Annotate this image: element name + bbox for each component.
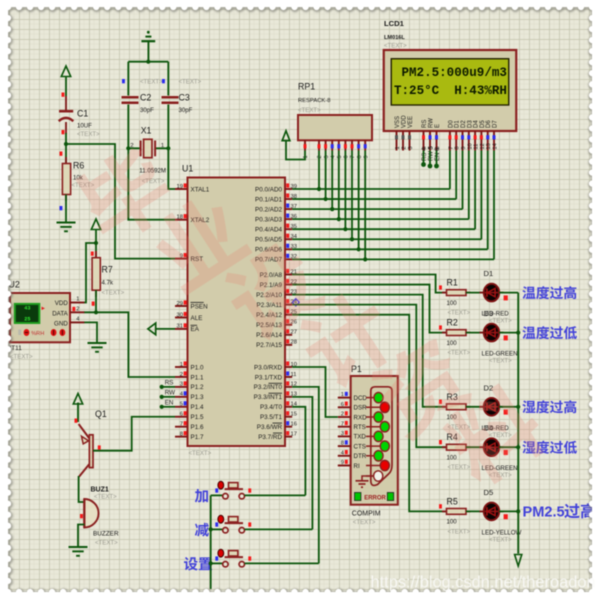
svg-text:14: 14 [493, 143, 499, 149]
svg-text:P0.1/AD1: P0.1/AD1 [255, 196, 282, 203]
svg-text:PM2.5: PM2.5 [523, 505, 565, 521]
svg-text:10: 10 [467, 143, 473, 149]
wire bus to button left contact [211, 528, 223, 530]
node X1 pin1 [166, 146, 170, 150]
svg-text:18: 18 [177, 215, 183, 221]
svg-text:D1: D1 [455, 120, 461, 128]
COMPIM internal ground [362, 476, 373, 481]
svg-text:RW: RW [429, 118, 435, 128]
ground (buzzer) [69, 546, 88, 548]
wire Q1 base to P1.5 [93, 417, 175, 451]
wire button right contact out [245, 494, 306, 496]
svg-text:3: 3 [324, 155, 330, 158]
svg-text:7: 7 [180, 422, 183, 428]
svg-text:<TEXT>: <TEXT> [448, 310, 471, 317]
svg-text:T:25°C H:43%RH: T:25°C H:43%RH [394, 84, 507, 98]
RP1 pin 8 [358, 140, 360, 150]
svg-text:100: 100 [447, 519, 458, 526]
svg-text:12: 12 [480, 143, 486, 149]
wire EA [156, 328, 175, 330]
node bus junction button3 [209, 561, 213, 565]
COMPIM pin 6 DSR [338, 406, 351, 408]
svg-text:7: 7 [341, 421, 344, 427]
svg-text:<TEXT>: <TEXT> [298, 107, 321, 114]
svg-text:X1: X1 [141, 126, 152, 136]
wire to C3 [167, 62, 169, 96]
wire R2 to D3 [466, 332, 484, 334]
svg-text:XTAL1: XTAL1 [191, 186, 210, 193]
resistor R7 4.7k [95, 251, 97, 258]
svg-text:4: 4 [330, 155, 336, 158]
svg-text:<TEXT>: <TEXT> [94, 494, 117, 501]
wire R7 to DATA [95, 290, 97, 312]
wire R3 to D2 [466, 406, 484, 408]
wire D3 to bus [499, 332, 518, 334]
svg-text:LED-YELLOW: LED-YELLOW [482, 529, 522, 536]
svg-text:9: 9 [461, 146, 467, 149]
wire VCC to DHT11 VDD [84, 243, 96, 303]
wire LCD D0 vertical [449, 151, 451, 190]
RP1 pin 7 [351, 140, 353, 150]
power terminal [73, 394, 82, 405]
svg-text:2: 2 [402, 146, 408, 149]
svg-text:2: 2 [341, 412, 344, 418]
svg-text:16: 16 [291, 422, 297, 428]
node P0.3/RP1 junction [337, 217, 341, 221]
resistor R3 100 [439, 400, 442, 404]
wire D1 to bus [499, 292, 518, 294]
ground (crystal top) [147, 31, 150, 34]
node P0.1/RP1 junction [324, 197, 328, 201]
svg-text:EA: EA [191, 326, 200, 333]
wire P0.0 row [292, 188, 450, 190]
svg-text:P1.6: P1.6 [191, 424, 204, 431]
wire DHT11 GND [84, 322, 97, 342]
node P0.6/RP1 junction [357, 247, 361, 251]
svg-text:8: 8 [357, 155, 363, 158]
wire DATA to P1.1 [84, 312, 175, 377]
wire X1 left [128, 147, 140, 149]
svg-text:6: 6 [341, 402, 344, 408]
wire LCD D4 vertical [474, 151, 476, 230]
LED common bus vertical [517, 293, 519, 554]
U1 left pins [175, 188, 188, 190]
P2.4 to R5 [292, 315, 446, 512]
ground (DHT11) [88, 342, 107, 344]
svg-text:P1.2: P1.2 [191, 384, 204, 391]
node P0.4/RP1 junction [343, 227, 347, 231]
LED D4 LED-GREEN [480, 446, 485, 448]
origin marker pin24 [292, 299, 299, 306]
DHT11 pin 4 GND [70, 321, 84, 323]
svg-text:<TEXT>: <TEXT> [95, 540, 118, 547]
wire bus to button left contact [211, 562, 223, 564]
svg-text:RW: RW [165, 389, 175, 396]
LED D1 LED-RED [480, 292, 485, 294]
wire LCD D1 vertical [455, 151, 457, 200]
svg-text:P3.2/INT0: P3.2/INT0 [254, 384, 283, 391]
svg-text:RESPACK-8: RESPACK-8 [298, 98, 330, 104]
COMPIM pin 8 CTS [338, 445, 351, 447]
wire P0.1 row [292, 198, 456, 200]
svg-text:<TEXT>: <TEXT> [353, 519, 376, 526]
wire D5 to bus [499, 510, 518, 512]
svg-text:P1.0: P1.0 [191, 364, 204, 371]
svg-text:DTR: DTR [354, 453, 367, 460]
wire VCC to Q1 collector [77, 403, 79, 423]
svg-text:%RH: %RH [31, 331, 44, 337]
net label 湿度过高 [522, 400, 576, 413]
wire P0.7 row [292, 258, 494, 260]
svg-text:<TEXT>: <TEXT> [189, 450, 212, 457]
node P0.2/RP1 junction [330, 207, 334, 211]
svg-text:PM2.5:000u9/m3: PM2.5:000u9/m3 [402, 66, 507, 80]
svg-text:<TEXT>: <TEXT> [77, 131, 100, 138]
svg-text:30: 30 [177, 312, 183, 318]
resistor R1 100 [439, 285, 442, 289]
wire RP1 pin6 pullup to P0.4 [344, 151, 346, 230]
svg-text:DSR: DSR [354, 405, 368, 412]
svg-text:P1.3: P1.3 [191, 394, 204, 401]
svg-text:9: 9 [363, 155, 369, 158]
svg-text:D6: D6 [486, 120, 492, 128]
P2.3 to R4 [292, 305, 446, 448]
svg-text:P3.7/RD: P3.7/RD [258, 434, 282, 441]
wire R1 to D1 [466, 292, 484, 294]
svg-text:8: 8 [180, 431, 183, 437]
wire LCD D2 vertical [462, 151, 464, 210]
wire bus to button left contact [211, 494, 223, 496]
svg-text:ALE: ALE [191, 315, 203, 322]
svg-text:TXD: TXD [354, 434, 367, 441]
svg-text:C1: C1 [77, 109, 88, 119]
svg-text:R2: R2 [447, 318, 458, 328]
node X1 pin2 [126, 146, 130, 150]
wire RP1 pin8 pullup to P0.6 [358, 151, 360, 250]
svg-text:1: 1 [180, 362, 183, 368]
wire LCD D3 vertical [468, 151, 470, 220]
svg-text:D3: D3 [467, 120, 473, 128]
svg-text:C2: C2 [140, 93, 151, 103]
wire P3.0 to COMPIM RXD [292, 367, 338, 417]
svg-text:5: 5 [180, 402, 183, 408]
U1 right pins P3 [285, 366, 292, 368]
node bus junction D3 [516, 331, 520, 335]
wire button right contact out [245, 528, 313, 530]
svg-text:4.7k: 4.7k [102, 280, 114, 287]
svg-text:P3.1/TXD: P3.1/TXD [255, 374, 283, 381]
svg-text:VDD: VDD [402, 115, 408, 128]
svg-text:17: 17 [291, 431, 297, 437]
U1 right pins P0 [285, 188, 292, 190]
resistor R6 10k [65, 157, 67, 164]
RP1 pin 9 [364, 140, 366, 150]
svg-text:RS: RS [165, 379, 174, 386]
svg-text:U1: U1 [182, 164, 193, 174]
svg-text:P0.2/AD2: P0.2/AD2 [255, 206, 282, 213]
svg-text:P3.3/INT1: P3.3/INT1 [254, 394, 283, 401]
svg-text:▶: ▶ [42, 306, 46, 311]
svg-text:E: E [435, 124, 441, 128]
svg-text:D2: D2 [461, 120, 467, 128]
svg-text:30pF: 30pF [140, 107, 154, 114]
svg-text:P3.4/T0: P3.4/T0 [260, 404, 283, 411]
svg-text:D0: D0 [448, 120, 454, 128]
RP1 pin 4 [331, 140, 333, 150]
resistor R5 100 [439, 504, 442, 508]
svg-text:9: 9 [341, 460, 344, 466]
power terminal (RP1) [282, 131, 290, 141]
svg-text:COMPIM: COMPIM [352, 511, 381, 518]
wire C3/X1 to XTAL1 [168, 105, 175, 190]
svg-text:P0.3/AD3: P0.3/AD3 [255, 216, 282, 223]
svg-text:D1: D1 [484, 269, 494, 278]
capacitor C3 30pF [162, 96, 179, 99]
COMPIM pin 2 RXD [338, 416, 351, 418]
svg-text:<TEXT>: <TEXT> [489, 536, 512, 543]
svg-text:P1.4: P1.4 [191, 404, 204, 411]
svg-text:100: 100 [447, 454, 458, 461]
wire C2/X1 to XTAL2 [128, 105, 175, 220]
wire to C2 [127, 62, 129, 96]
svg-text:27: 27 [291, 330, 297, 336]
svg-text:ERROR: ERROR [364, 495, 386, 501]
svg-text:R6: R6 [73, 161, 84, 171]
svg-text:7: 7 [448, 146, 454, 149]
wire RST net [66, 144, 175, 259]
wire C2-C3 top rail [128, 61, 168, 63]
net label 湿度过低 [522, 441, 577, 454]
svg-text:EN: EN [165, 399, 174, 406]
svg-text:P0.0/AD0: P0.0/AD0 [255, 186, 282, 193]
svg-text:P0.4/AD4: P0.4/AD4 [255, 227, 282, 234]
wire P3.4 to button 加 [292, 407, 305, 496]
svg-text:<TEXT>: <TEXT> [384, 43, 407, 50]
svg-text:RS: RS [422, 120, 428, 128]
resistor R4 100 [439, 440, 442, 444]
node bus junction D2 [516, 405, 520, 409]
ground (R6) [57, 222, 76, 224]
wire gnd stem [147, 41, 149, 62]
svg-text:3: 3 [341, 431, 344, 437]
svg-text:DCD: DCD [354, 395, 368, 402]
P2.1 to R2 [292, 285, 447, 333]
LED D2 LED-RED [480, 406, 485, 408]
svg-text:11: 11 [291, 372, 297, 378]
svg-text:VSS: VSS [395, 116, 401, 128]
svg-text:1: 1 [395, 146, 401, 149]
wire P3.3 to button 减 [292, 397, 312, 530]
svg-text:LM016L: LM016L [384, 35, 405, 41]
svg-text:D3: D3 [484, 309, 494, 318]
net RS [162, 386, 175, 388]
wire P0.4 row [292, 228, 475, 230]
svg-text:VEE: VEE [408, 116, 414, 128]
wire RP1 pin4 pullup to P0.2 [331, 151, 333, 210]
wire VCC to R7 [95, 230, 97, 259]
svg-text:RTS: RTS [354, 424, 366, 431]
P2.2 to R3 [292, 295, 446, 407]
svg-text:C3: C3 [179, 93, 190, 103]
svg-text:11: 11 [474, 144, 480, 150]
svg-text:P2.7/A15: P2.7/A15 [256, 342, 282, 349]
P2.0 to R1 [292, 275, 447, 293]
COMPIM pin 1 DCD [338, 397, 351, 399]
node P0.7/RP1 junction [363, 257, 367, 261]
wire LCD D7 vertical [493, 151, 495, 260]
DHT11 pin 2 DATA [70, 311, 84, 313]
svg-text:P1.5: P1.5 [191, 414, 204, 421]
svg-text:https://blog.csdn.net/theroado: https://blog.csdn.net/theroadon [371, 574, 596, 592]
svg-text:31: 31 [177, 324, 183, 330]
wire RP1 pin3 pullup to P0.1 [325, 151, 327, 200]
wire collector to buzzer [79, 476, 85, 502]
wire RP1 pin9 pullup to P0.7 [364, 151, 366, 260]
resistor R2 100 [439, 325, 442, 329]
wire P0.6 row [292, 248, 488, 250]
node P0.0/RP1 junction [317, 187, 321, 191]
svg-text:1: 1 [341, 392, 344, 398]
svg-text:LCD1: LCD1 [384, 19, 405, 28]
svg-text:2: 2 [180, 372, 183, 378]
svg-text:29: 29 [177, 301, 183, 307]
svg-text:R5: R5 [447, 496, 458, 506]
U1 right pins P2 [285, 274, 292, 276]
wire D4 to bus [499, 446, 518, 448]
node crystal gnd junction [146, 60, 150, 64]
svg-text:LED-GREEN: LED-GREEN [482, 351, 518, 358]
wire R6 to ground [65, 195, 67, 222]
svg-text:<TEXT>: <TEXT> [489, 358, 512, 365]
svg-text:28: 28 [291, 340, 297, 346]
bus down arrow terminal [515, 555, 522, 567]
svg-text:100: 100 [447, 340, 458, 347]
svg-text:VDD: VDD [55, 300, 69, 307]
COMPIM pin 3 TXD [338, 435, 351, 437]
svg-text:P3.6/WR: P3.6/WR [257, 424, 283, 431]
net label 温度过高 [522, 286, 576, 299]
net label 温度过低 [522, 326, 577, 339]
wire LCD E to net EN [436, 151, 438, 167]
svg-text:<TEXT>: <TEXT> [448, 350, 471, 357]
svg-text:GND: GND [54, 320, 68, 327]
svg-text:CTS: CTS [354, 443, 366, 450]
node C1/R6/RST junction [64, 142, 68, 146]
svg-text:19: 19 [177, 184, 183, 190]
RP1 pin 1 [304, 140, 306, 150]
svg-text:<TEXT>: <TEXT> [448, 464, 471, 471]
capacitor C1 [65, 96, 67, 110]
wire C1 to R6 [65, 133, 67, 164]
svg-text:D7: D7 [493, 120, 499, 128]
net RW [162, 396, 175, 398]
svg-text:BUZ1: BUZ1 [91, 487, 109, 494]
svg-text:<TEXT>: <TEXT> [102, 290, 125, 297]
svg-text:P1.1: P1.1 [191, 374, 204, 381]
wire RP1 pin2 pullup to P0.0 [318, 151, 320, 190]
DB9 graphic [371, 387, 392, 486]
svg-text:RI: RI [354, 463, 360, 470]
net EN [162, 406, 175, 408]
svg-text:2: 2 [130, 143, 133, 149]
wire R5 to D5 [466, 510, 484, 512]
node bus junction button2 [209, 527, 213, 531]
RP1 pin 3 [325, 140, 327, 150]
RP1 pin 5 [338, 140, 340, 150]
COMPIM pin 7 RTS [338, 426, 351, 428]
wire RP1 pin5 pullup to P0.3 [338, 151, 340, 220]
wire D2 to bus [499, 406, 518, 408]
power terminal [61, 66, 70, 77]
svg-text:1: 1 [76, 297, 79, 303]
DHT11 pin 1 VDD [70, 302, 84, 304]
wire P3.2 to button 设置 [292, 387, 319, 564]
svg-text:PSEN: PSEN [191, 303, 209, 310]
svg-text:R1: R1 [447, 278, 458, 288]
push button 减 [195, 523, 209, 537]
button common bus [210, 495, 212, 589]
push button 加 [195, 489, 208, 503]
wire buzzer to ground [78, 525, 85, 547]
svg-text:43: 43 [24, 306, 30, 312]
node bus junction D5 [516, 509, 520, 513]
svg-text:25: 25 [24, 317, 30, 323]
wire LCD RW to net RW [429, 151, 431, 167]
LED D3 LED-GREEN [480, 332, 485, 334]
wire RP1 pin1 to power [286, 141, 305, 160]
wire P0.5 row [292, 238, 481, 240]
svg-text:8: 8 [341, 441, 344, 447]
COMPIM pin 9 RI [338, 465, 351, 467]
push button 设置 [184, 557, 212, 571]
svg-text:3: 3 [180, 382, 183, 388]
svg-text:P3.0/RXD: P3.0/RXD [254, 364, 282, 371]
wire P0.2 row [292, 208, 462, 210]
capacitor C2 30pF [122, 96, 139, 99]
svg-text:6: 6 [180, 412, 183, 418]
svg-text:D5: D5 [484, 488, 494, 497]
svg-text:<TEXT>: <TEXT> [448, 528, 471, 535]
RP1 pin 6 [344, 140, 346, 150]
svg-text:RP1: RP1 [298, 82, 315, 92]
RP1 pin 2 [318, 140, 320, 150]
svg-text:100: 100 [447, 300, 458, 307]
svg-text:DATA: DATA [52, 310, 68, 317]
svg-text:R7: R7 [102, 265, 113, 275]
node VDD/R7 junction [94, 241, 98, 245]
svg-text:10UF: 10UF [77, 122, 92, 129]
svg-text:30pF: 30pF [179, 107, 193, 114]
svg-text:3: 3 [408, 146, 414, 149]
svg-text:<TEXT>: <TEXT> [179, 78, 202, 85]
wire RP1 pin7 pullup to P0.5 [351, 151, 353, 240]
wire button right contact out [245, 562, 319, 564]
svg-text:<TEXT>: <TEXT> [10, 354, 33, 361]
svg-text:2: 2 [76, 306, 79, 312]
svg-text:RXD: RXD [354, 414, 368, 421]
wire R4 to D4 [466, 446, 484, 448]
svg-text:P1.7: P1.7 [191, 434, 204, 441]
node P0.5/RP1 junction [350, 237, 354, 241]
svg-text:<TEXT>: <TEXT> [140, 78, 163, 85]
svg-text:D5: D5 [480, 120, 486, 128]
svg-text:Q1: Q1 [95, 409, 107, 419]
LED D5 LED-YELLOW [480, 510, 485, 512]
svg-text:D4: D4 [474, 120, 480, 128]
svg-text:8: 8 [455, 146, 461, 149]
svg-text:P0.5/AD5: P0.5/AD5 [255, 237, 282, 244]
svg-text:15: 15 [291, 412, 297, 418]
